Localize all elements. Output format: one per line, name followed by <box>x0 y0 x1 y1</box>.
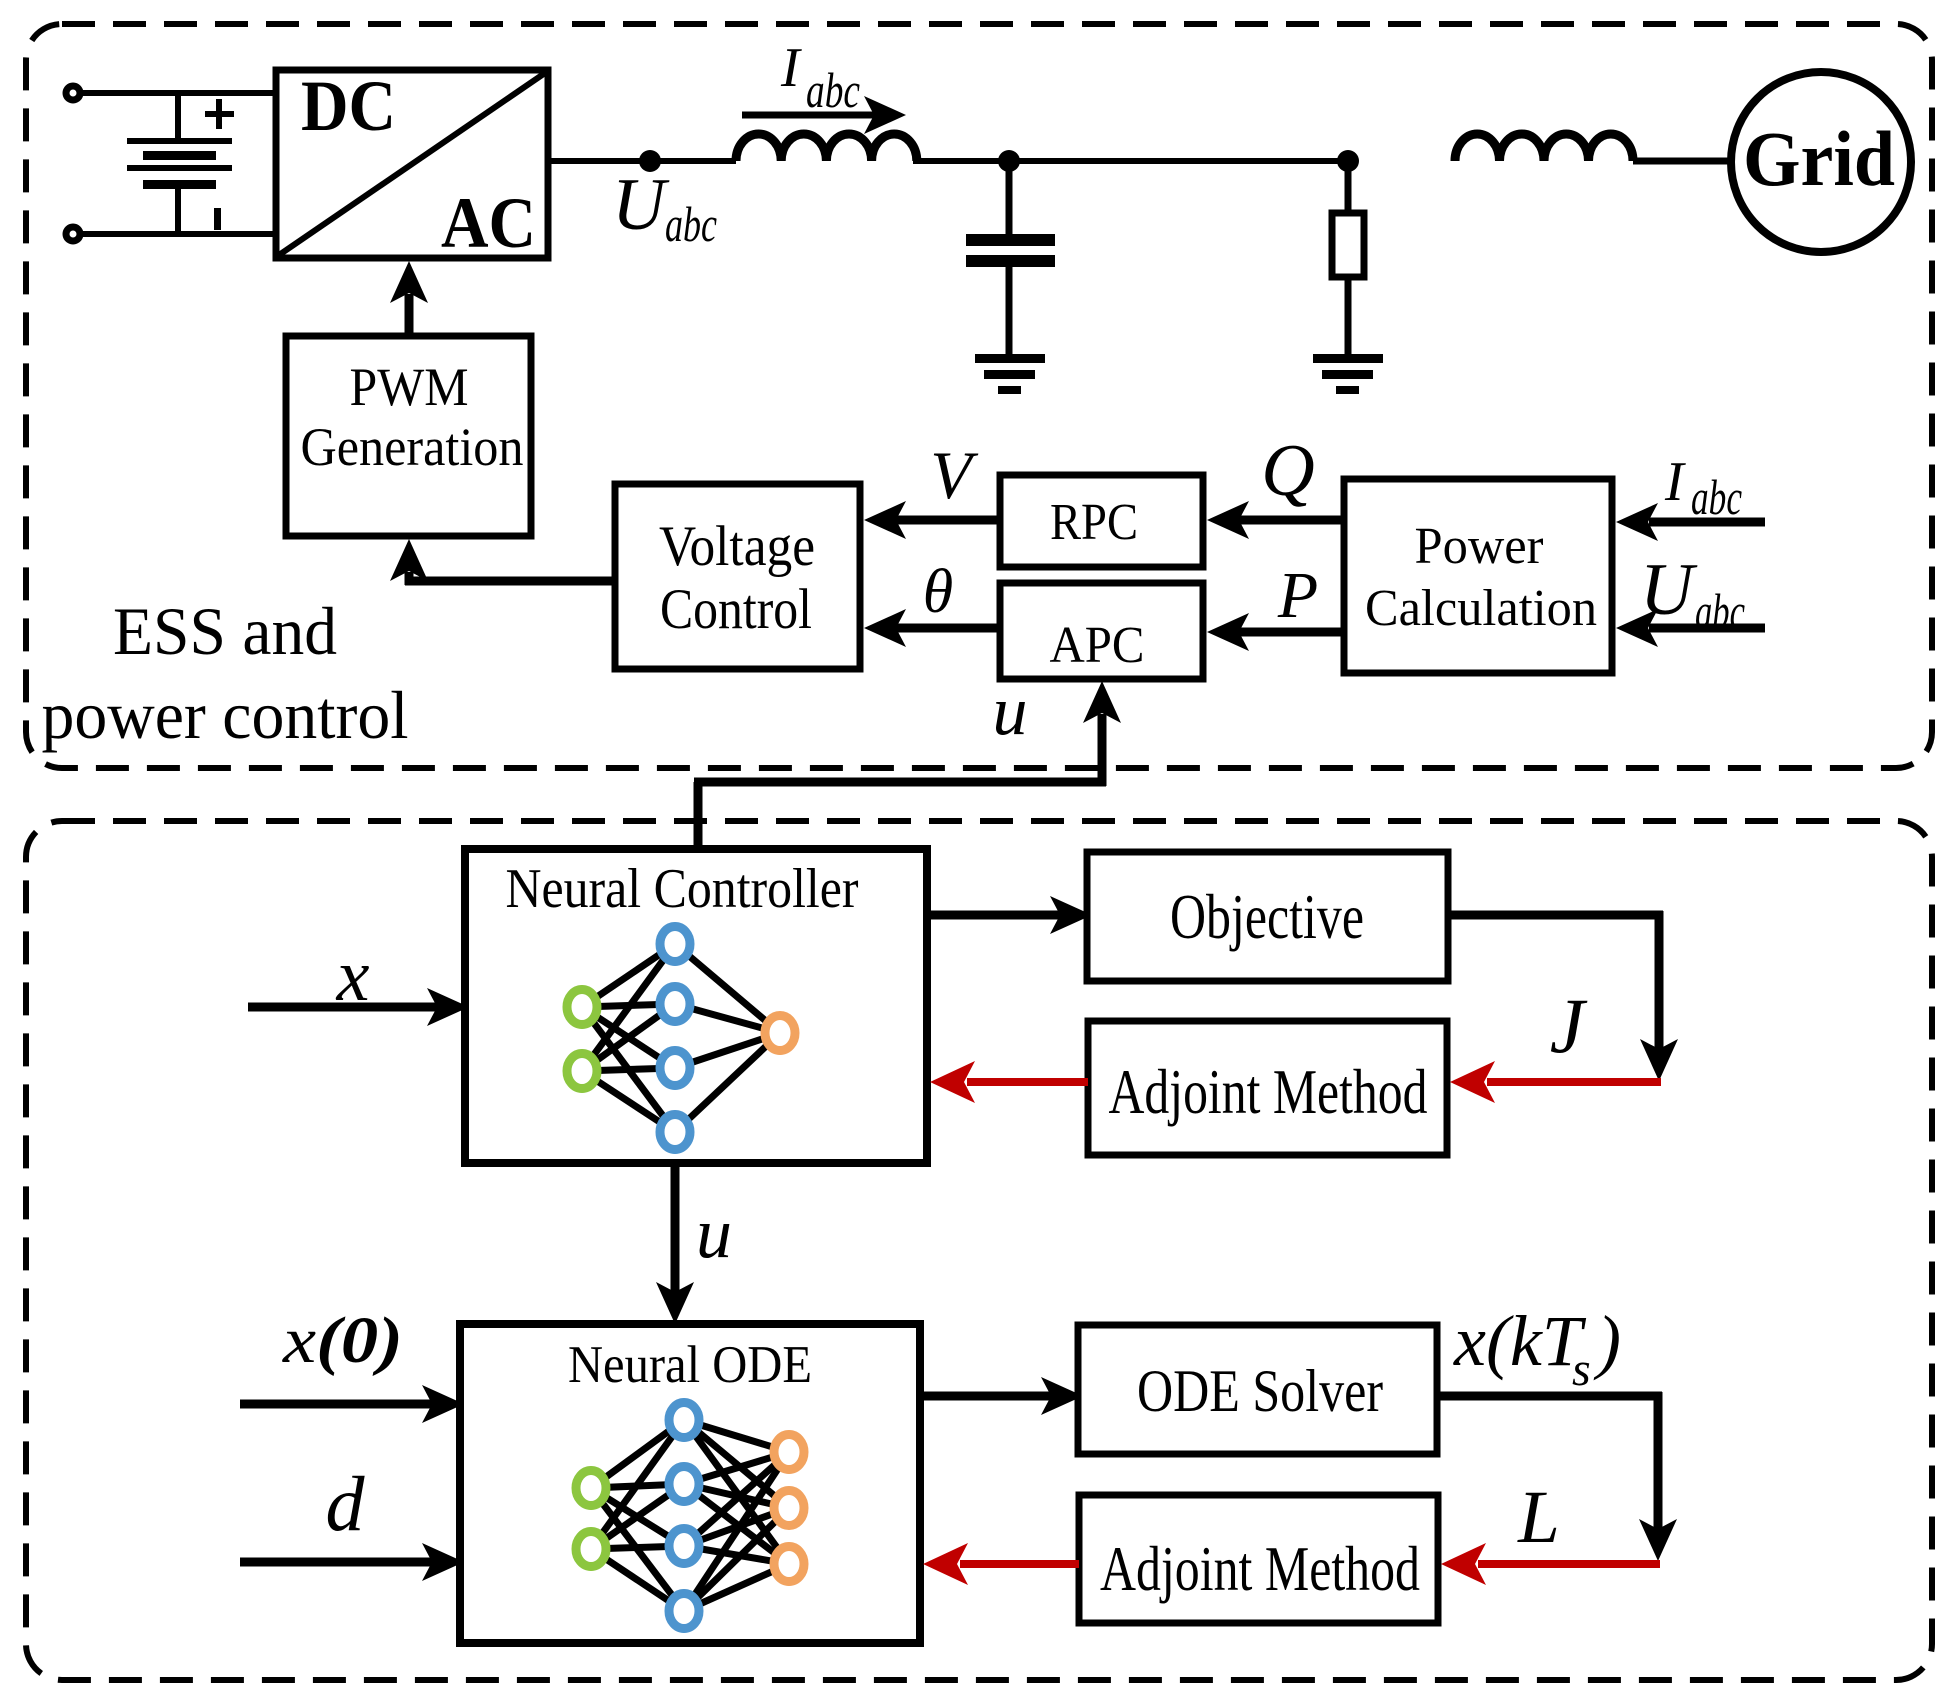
svg-text:θ: θ <box>923 558 953 626</box>
svg-text:Adjoint Method: Adjoint Method <box>1100 1534 1420 1604</box>
svg-text:power control: power control <box>42 677 409 753</box>
svg-text:abc: abc <box>665 196 717 252</box>
svg-text:u: u <box>993 673 1028 750</box>
svg-text:Adjoint Method: Adjoint Method <box>1109 1057 1428 1127</box>
svg-text:Power: Power <box>1415 518 1544 575</box>
svg-text:abc: abc <box>806 62 860 118</box>
svg-text:J: J <box>1550 982 1588 1069</box>
svg-text:I: I <box>780 37 802 99</box>
svg-text:APC: APC <box>1050 617 1145 674</box>
svg-text:V: V <box>930 437 979 513</box>
svg-text:Calculation: Calculation <box>1365 580 1597 637</box>
svg-text:Neural Controller: Neural Controller <box>506 858 859 920</box>
svg-text:Neural ODE: Neural ODE <box>568 1336 812 1394</box>
svg-text:Generation: Generation <box>301 417 524 477</box>
svg-text:ODE Solver: ODE Solver <box>1137 1358 1383 1424</box>
svg-text:Q: Q <box>1261 430 1314 512</box>
svg-text:RPC: RPC <box>1050 494 1138 551</box>
svg-text:PWM: PWM <box>350 357 469 417</box>
svg-text:ESS and: ESS and <box>113 593 337 669</box>
svg-text:AC: AC <box>441 183 536 263</box>
svg-text:x(0): x(0) <box>282 1304 403 1377</box>
svg-text:P: P <box>1277 559 1318 632</box>
svg-text:Control: Control <box>660 578 812 641</box>
svg-text:U: U <box>1640 549 1698 631</box>
svg-text:I: I <box>1664 451 1686 513</box>
svg-text:Objective: Objective <box>1170 882 1364 952</box>
svg-text:abc: abc <box>1695 583 1745 639</box>
svg-text:abc: abc <box>1691 469 1742 525</box>
svg-text:s: s <box>1572 1343 1591 1396</box>
svg-text:d: d <box>326 1460 366 1547</box>
svg-text:): ) <box>1593 1301 1621 1381</box>
svg-text:u: u <box>696 1193 732 1273</box>
svg-text:Voltage: Voltage <box>659 515 815 578</box>
svg-text:x(kT: x(kT <box>1453 1301 1587 1381</box>
svg-text:L: L <box>1517 1476 1560 1559</box>
svg-text:U: U <box>612 164 670 246</box>
svg-text:DC: DC <box>301 66 396 146</box>
svg-text:Grid: Grid <box>1743 115 1895 202</box>
svg-text:x: x <box>336 935 370 1017</box>
